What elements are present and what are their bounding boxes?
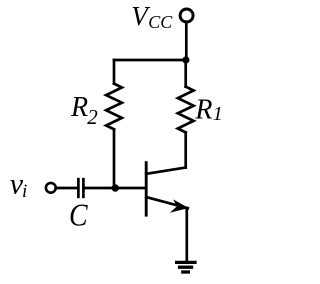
terminal VCC (open circle) [180, 9, 193, 22]
svg-text:C: C [69, 198, 88, 233]
capacitor C left plate [77, 178, 80, 198]
terminal vi (open circle) [46, 183, 56, 193]
wire VCC terminal to top rail [185, 23, 188, 60]
junction dot under VCC [182, 56, 189, 63]
svg-text:1: 1 [213, 103, 223, 125]
transistor Q1 collector lead [146, 168, 186, 174]
transistor Q1 emitter lead [146, 197, 188, 208]
svg-text:2: 2 [87, 105, 98, 129]
junction dot at base node [112, 184, 119, 191]
resistor R2 [106, 84, 122, 130]
wire rail down to R2 [113, 60, 116, 84]
capacitor C right plate [82, 178, 85, 198]
ground symbol [175, 262, 197, 272]
wire emitter down to ground [185, 208, 188, 262]
transistor Q1 emitter arrowhead [170, 199, 189, 212]
wire R1 top stub [184, 60, 187, 87]
svg-text:i: i [22, 181, 27, 202]
svg-text:R: R [70, 92, 88, 123]
wire R1 bottom to collector [184, 132, 187, 167]
transistor Q1 base bar [145, 161, 148, 216]
wire vi terminal to capacitor [57, 187, 77, 190]
svg-text:CC: CC [148, 12, 173, 32]
svg-text:R: R [194, 94, 212, 125]
wire R2 bottom to base node [113, 129, 116, 188]
wire top rail horizontal [114, 59, 186, 62]
wire base from capacitor to Q1 [85, 187, 145, 190]
resistor R1 [178, 87, 194, 133]
